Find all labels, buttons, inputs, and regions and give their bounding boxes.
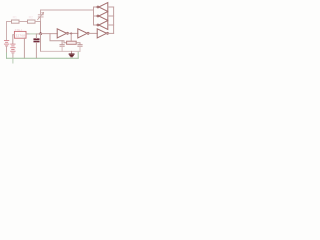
svg-text:XTAL1: XTAL1 — [15, 28, 23, 32]
wire B1 lead down — [6, 46, 8, 53]
wire green right end up — [77, 51, 79, 58]
wire C2 bottom lead — [61, 46, 63, 51]
inverter U3B (points left) — [99, 12, 108, 21]
wire U2A out to U2B in — [67, 32, 78, 34]
wire drop to crystal X1 — [70, 34, 72, 42]
capacitor C3 plates — [78, 45, 82, 47]
bottom ground rail net 0V green — [7, 57, 79, 59]
inverter U2B — [78, 29, 87, 38]
battery B2 bars — [11, 43, 15, 45]
svg-text:32768: 32768 — [16, 33, 26, 37]
wire R2 to trimmer node — [35, 21, 41, 23]
capacitor C4 dark plates — [34, 38, 38, 40]
wire U3B in to right bus — [108, 15, 114, 17]
wire feedback top rail y10 — [41, 9, 94, 11]
wire top horizontal to R1 — [7, 21, 12, 23]
trimmer capacitor C1 plates — [38, 15, 43, 17]
wire stub to U3C out — [94, 24, 99, 26]
wire green tinted segment — [29, 33, 38, 35]
module box U1 (crystal module) — [14, 31, 26, 38]
resistor R2 — [28, 20, 36, 23]
wire green left end up — [6, 53, 8, 58]
inverter U2A — [57, 29, 66, 38]
right bus vertical — [113, 7, 115, 33]
wire ground stem — [71, 51, 73, 53]
bubble U2C — [107, 32, 109, 34]
wire C4 top lead — [35, 34, 37, 39]
bubble U2B — [87, 32, 89, 34]
trimmer capacitor C1 arrow — [38, 13, 44, 20]
capacitor C2 plates — [60, 45, 64, 47]
wire input to inverter row — [41, 33, 58, 35]
svg-text:R1: R1 — [13, 16, 17, 20]
wire U1 left lead — [13, 35, 15, 44]
wire U1 bottom lead x24.4 — [23, 38, 25, 58]
wire X1 right lead — [76, 43, 80, 45]
junction node A dot — [39, 32, 42, 35]
wire U3C in to right bus — [108, 24, 114, 26]
junction node B dot — [70, 33, 72, 35]
trimmer capacitor C1 leads — [40, 10, 42, 22]
wire U3A in to right bus — [108, 6, 114, 8]
bubble U3A — [97, 6, 99, 8]
battery B1 bars — [4, 40, 8, 42]
wire top-left vertical from R1 down to battery B1 — [6, 22, 8, 41]
ground symbol — [69, 53, 74, 55]
wire C4 bottom lead — [35, 42, 37, 58]
ground rail of crystal section — [41, 50, 81, 52]
bubble U3B — [97, 15, 99, 17]
left bus of inverter stack — [93, 7, 95, 25]
inverter U3C (points left) — [99, 21, 108, 30]
wire U1 right lead to junction — [26, 33, 29, 35]
wire stub to U3A out — [94, 6, 99, 8]
wire C2 top lead — [61, 41, 63, 45]
inverter U2C — [97, 29, 106, 38]
wire green stub below rail at x13 — [12, 58, 14, 63]
wire vertical x40.5 from node to junction — [40, 22, 42, 34]
wire stub to U3B out — [94, 15, 99, 17]
wire R1 to R2 — [19, 21, 28, 23]
wire C3 bottom lead — [79, 46, 81, 51]
wire U2C out to right bus — [107, 32, 114, 34]
bubble U2A — [67, 32, 69, 34]
svg-text:R2: R2 — [29, 16, 33, 20]
crystal X1 box — [67, 41, 77, 44]
wire B2 lead down — [12, 53, 14, 58]
wire vertical x40.5 junction to ground rail — [40, 34, 42, 52]
wire U2B out to U2C in — [87, 32, 97, 34]
resistor R1 — [12, 20, 20, 23]
wire crystal branch from input node — [50, 34, 67, 43]
inverter U3A (points left) — [99, 3, 108, 12]
bubble U3C — [97, 24, 99, 26]
